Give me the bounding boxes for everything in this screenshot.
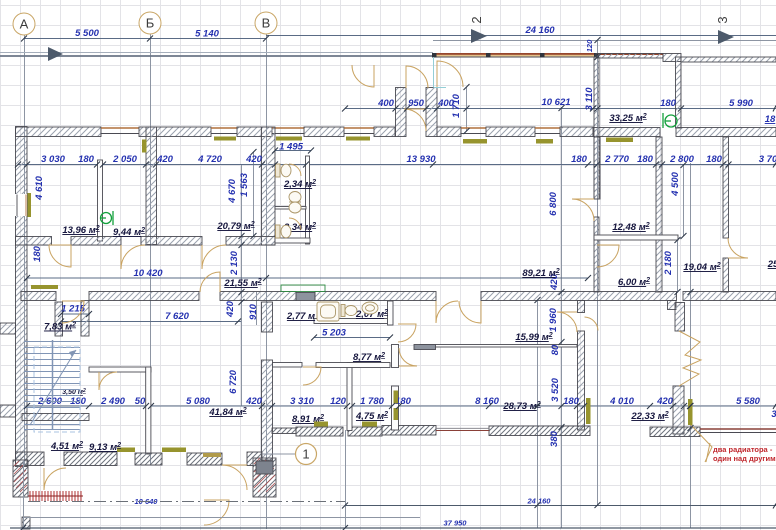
svg-text:13 930: 13 930 xyxy=(406,154,436,165)
wall x656-662 xyxy=(656,137,662,292)
svg-text:2 800: 2 800 xyxy=(669,154,694,165)
dim line 7620 y321 xyxy=(61,321,241,323)
top storey line thick xyxy=(0,55,433,57)
svg-text:10 621: 10 621 xyxy=(541,97,570,108)
svg-text:180: 180 xyxy=(660,98,677,109)
green symbol room 13,96 xyxy=(101,213,112,224)
big door bottom x222-247 xyxy=(222,465,247,490)
wall 33,25 east x675-681 xyxy=(676,57,682,128)
vert line x345 bottom xyxy=(345,430,347,528)
svg-text:4 670: 4 670 xyxy=(227,178,238,203)
dim row y406 xyxy=(27,405,776,407)
svg-text:7 620: 7 620 xyxy=(165,311,189,322)
svg-text:28,73 м2: 28,73 м2 xyxy=(502,401,540,412)
top band wall segment 1 xyxy=(16,127,102,137)
long vert dim line x561 xyxy=(561,107,563,528)
door 13,96 xyxy=(49,245,71,267)
WC east thin wall xyxy=(306,156,310,244)
В wall lower x262-272 xyxy=(262,302,273,332)
wall x391-399 y345-430 xyxy=(392,345,399,368)
axis line B(Б) xyxy=(150,34,152,465)
radiator 4,75 xyxy=(362,422,377,427)
porch pier right xyxy=(253,458,276,497)
svg-text:18: 18 xyxy=(765,114,776,125)
red ramp hatch xyxy=(28,491,83,501)
svg-text:25: 25 xyxy=(767,259,776,270)
svg-text:2 050: 2 050 xyxy=(112,154,137,165)
band wall x593-664 under room 33,25 xyxy=(593,128,660,137)
bottom wall of rooms y236-245 xyxy=(16,237,52,246)
band window x535-560 xyxy=(535,127,560,129)
stair west wall xyxy=(55,302,63,336)
main dim row y164 xyxy=(18,164,776,166)
top band wall segment 3 xyxy=(237,127,272,137)
toilet 2,07 xyxy=(341,305,345,317)
radiator under window 211-237 xyxy=(214,137,236,141)
svg-text:6,00 м2: 6,00 м2 xyxy=(618,277,650,288)
svg-text:420: 420 xyxy=(156,154,174,165)
top band wall segment 2 xyxy=(139,127,211,137)
radiator 2770 room xyxy=(606,138,633,143)
svg-text:6 720: 6 720 xyxy=(228,369,239,393)
door double y292 x436-481 xyxy=(436,301,458,323)
wall 8,91 top x272-302 xyxy=(273,363,303,368)
svg-text:120: 120 xyxy=(585,39,594,52)
svg-text:10 420: 10 420 xyxy=(133,268,163,279)
svg-text:1 495: 1 495 xyxy=(279,142,303,153)
sink WC middle xyxy=(289,192,301,203)
wall 9,13 top y367 xyxy=(89,367,151,372)
svg-text:400: 400 xyxy=(377,98,395,109)
svg-text:4,51 м2: 4,51 м2 xyxy=(50,441,83,452)
svg-text:37 950: 37 950 xyxy=(444,519,468,528)
shower 2,77 xyxy=(317,302,339,321)
window x211-237 xyxy=(211,127,237,129)
dim row y108 xyxy=(345,108,776,110)
wall 8,77 bottom y362-368 xyxy=(316,363,390,368)
svg-text:420: 420 xyxy=(656,396,674,407)
wall 420 x146-156 xyxy=(146,127,157,245)
svg-text:13,96 м2: 13,96 м2 xyxy=(62,225,99,236)
bottom wall y427 segments xyxy=(296,427,343,436)
dark lintel piece x296-315 xyxy=(296,293,315,301)
stair east wall xyxy=(81,301,89,337)
door 2,07 xyxy=(398,324,416,342)
balcony door zigzag xyxy=(679,331,701,386)
ticks 1495 xyxy=(272,148,314,154)
ticks row y108 xyxy=(342,106,776,112)
band wall x560-593 xyxy=(560,127,593,137)
svg-text:8 160: 8 160 xyxy=(475,396,499,407)
radiator 9,44 vertical xyxy=(142,140,147,153)
top wall x596-663 hatched xyxy=(596,54,663,59)
light blue vestibule lines xyxy=(433,57,435,87)
wall 8,91 / 4,75 x347-352 xyxy=(347,363,352,431)
svg-text:24 160: 24 160 xyxy=(524,25,555,36)
svg-text:5 140: 5 140 xyxy=(195,29,219,40)
svg-text:А: А xyxy=(20,17,29,32)
dim line 1215 y314 xyxy=(61,313,90,315)
stair mid line xyxy=(52,340,54,430)
ticks misc verticals xyxy=(559,105,565,430)
line to circle 1 xyxy=(262,453,297,455)
top wall x681-776 xyxy=(681,57,776,62)
svg-text:1 960: 1 960 xyxy=(548,307,559,331)
svg-text:9,13 м2: 9,13 м2 xyxy=(89,442,121,453)
svg-text:420: 420 xyxy=(245,396,263,407)
svg-text:1 215: 1 215 xyxy=(61,304,85,315)
svg-text:50: 50 xyxy=(135,396,146,407)
wall y235-240 bottom of 12,48 xyxy=(594,235,678,240)
porch pier left xyxy=(13,460,28,497)
wall 50 x146-151 xyxy=(146,367,151,454)
door 8,77 right xyxy=(399,348,417,366)
WC1 door arc xyxy=(289,164,301,176)
wall x577-584 rooms 15,99/22,33 xyxy=(578,301,585,313)
axis circle В xyxy=(255,12,277,34)
door 41,84 top x199-220 xyxy=(200,272,220,292)
door 9,13 xyxy=(99,372,117,390)
svg-text:120: 120 xyxy=(330,396,347,407)
threshold line x436-489 xyxy=(436,430,489,432)
door 8,91 top xyxy=(303,367,321,385)
axis circle Б xyxy=(139,12,161,34)
door 20,79 xyxy=(202,245,226,269)
svg-text:8,77 м2: 8,77 м2 xyxy=(353,352,385,363)
svg-text:2 490: 2 490 xyxy=(100,396,125,407)
svg-text:5 500: 5 500 xyxy=(75,28,99,39)
vert line x23 bottom xyxy=(23,460,25,528)
svg-text:4 720: 4 720 xyxy=(197,154,222,165)
radiator under window 344-374 xyxy=(346,137,370,141)
svg-text:2 770: 2 770 xyxy=(604,154,629,165)
svg-text:12,48 м2: 12,48 м2 xyxy=(612,222,649,233)
top wall corner x663-681 xyxy=(663,54,681,62)
sink 2,07 xyxy=(362,302,378,314)
wall right of 2,07 x387-393 xyxy=(388,301,394,325)
pier foot x650-700 xyxy=(650,427,700,437)
svg-text:15,99 м2: 15,99 м2 xyxy=(515,332,552,343)
vestibule wall east xyxy=(426,88,437,137)
svg-text:41,84 м2: 41,84 м2 xyxy=(208,407,246,418)
ticks 10420 xyxy=(24,275,591,281)
wall x723-728 with door gap xyxy=(723,137,729,238)
long vert dim line x690 xyxy=(690,163,692,528)
window x344-374 xyxy=(344,127,374,129)
door 89,21 from lobby xyxy=(572,199,594,221)
partition x97-103 room 13,96/9,44 xyxy=(98,160,103,241)
svg-text:2 130: 2 130 xyxy=(229,250,240,275)
svg-text:5 580: 5 580 xyxy=(736,396,760,407)
svg-text:1 710: 1 710 xyxy=(451,93,462,117)
stair treads xyxy=(24,342,80,430)
svg-text:180: 180 xyxy=(32,245,43,262)
wall left outer xyxy=(16,127,28,467)
svg-text:1 780: 1 780 xyxy=(360,396,384,407)
radiator stair block xyxy=(31,285,58,289)
svg-text:4 610: 4 610 xyxy=(34,175,45,200)
svg-text:80: 80 xyxy=(550,344,561,355)
svg-text:89,21 м2: 89,21 м2 xyxy=(522,268,559,279)
svg-text:3 310: 3 310 xyxy=(290,396,314,407)
thin wall x272-296 y428 xyxy=(272,428,296,434)
svg-text:В: В xyxy=(262,16,271,31)
wall 2,07 block top walls xyxy=(314,319,390,324)
WC2 door arc xyxy=(289,218,301,230)
svg-text:910: 910 xyxy=(248,303,259,320)
svg-text:3: 3 xyxy=(771,409,776,420)
svg-text:5 203: 5 203 xyxy=(322,328,346,339)
leader line callout xyxy=(690,424,712,462)
svg-text:Б: Б xyxy=(146,16,155,31)
dim line 1495 y150 xyxy=(275,150,311,152)
vert dim line x677 (2180) xyxy=(677,238,679,292)
svg-text:4 010: 4 010 xyxy=(609,396,634,407)
door 28,73/22,33 xyxy=(557,312,577,332)
window x101-139 xyxy=(101,127,139,129)
radiator lobby window 1 xyxy=(463,139,487,144)
svg-text:6 800: 6 800 xyxy=(548,191,559,215)
svg-text:2,77 м: 2,77 м xyxy=(286,311,315,322)
green lintel rect xyxy=(281,285,325,292)
window band ticks xyxy=(432,53,599,58)
svg-text:3 70: 3 70 xyxy=(759,154,776,165)
bottom-left band y452-466 xyxy=(16,452,45,466)
svg-text:20,79 м2: 20,79 м2 xyxy=(216,221,254,232)
section arrow 3 xyxy=(718,30,734,44)
top band wall segment 5 xyxy=(374,127,395,137)
ticks 7620 1215 xyxy=(58,311,241,325)
band piece right of vestibule door xyxy=(437,127,461,137)
dim line 5203 y337 xyxy=(314,337,390,339)
wall 33,25 west x591-598 xyxy=(594,57,599,199)
bottom dim line 24160 xyxy=(345,505,776,507)
door bottom exit 4,51 xyxy=(44,468,66,490)
wall segment x414-435 y345 xyxy=(414,345,436,350)
axis circle A xyxy=(13,13,35,35)
svg-text:33,25 м2: 33,25 м2 xyxy=(609,113,646,124)
pier x673-684 y386-434 xyxy=(673,386,684,434)
stair dashed outline xyxy=(34,347,80,432)
svg-text:420: 420 xyxy=(245,154,263,165)
vert dim line x241 xyxy=(241,165,243,406)
wall stub x675-684 y303-331 xyxy=(675,303,685,332)
svg-text:3 030: 3 030 xyxy=(41,154,65,165)
radiator room 13,96 xyxy=(28,193,32,217)
door vestibule top xyxy=(406,66,428,88)
svg-text:3: 3 xyxy=(715,16,730,23)
top storey line thin xyxy=(0,52,433,54)
svg-text:180: 180 xyxy=(637,154,654,165)
svg-text:180: 180 xyxy=(571,154,588,165)
svg-text:два радиатора -: два радиатора - xyxy=(713,445,773,454)
bottom edge pier small xyxy=(22,517,30,529)
radiator bars middle bottom xyxy=(586,398,591,424)
section arrow 2 xyxy=(471,29,487,43)
wall x591-597 lower with door gap xyxy=(594,137,600,199)
svg-text:2: 2 xyxy=(469,16,484,23)
ticks 5203 xyxy=(311,335,393,341)
door 9,44 xyxy=(121,245,145,269)
ticks bottom rows xyxy=(20,503,776,530)
vestibule wall west xyxy=(396,88,407,137)
svg-text:4,75 м2: 4,75 м2 xyxy=(355,411,388,422)
bottom wall right thin line x700-776 xyxy=(700,428,776,430)
svg-text:5 990: 5 990 xyxy=(729,98,753,109)
svg-text:950: 950 xyxy=(408,98,425,109)
svg-text:180: 180 xyxy=(706,154,723,165)
axis line V(В) xyxy=(266,34,268,529)
door 3,70 room xyxy=(728,238,748,258)
svg-text:4 500: 4 500 xyxy=(670,171,681,196)
section arrow 1 xyxy=(48,47,63,61)
corridor south wall y291-301 xyxy=(21,292,56,301)
door lobby left xyxy=(352,65,374,87)
long vert dim line x537 xyxy=(537,300,539,528)
В wall x262-275 upper xyxy=(262,127,276,245)
toilet WC1 xyxy=(276,164,281,177)
window in left wall xyxy=(15,194,27,216)
vert dim line x256 bottom xyxy=(256,292,258,325)
WC partition y207 xyxy=(275,207,306,210)
door 22,33 right leaf xyxy=(585,317,599,331)
axis line A xyxy=(24,35,26,465)
svg-text:5 080: 5 080 xyxy=(186,396,210,407)
ticks axis row xyxy=(21,36,269,42)
svg-text:2,34 м2: 2,34 м2 xyxy=(283,179,316,190)
door vestibule bottom xyxy=(404,109,426,131)
top band wall segment 4 xyxy=(304,127,344,137)
lobby door arc right of vestibule xyxy=(437,61,463,87)
svg-text:один над другим: один над другим xyxy=(713,454,776,463)
svg-text:380: 380 xyxy=(549,430,560,447)
svg-text:2 180: 2 180 xyxy=(663,250,674,275)
svg-text:1: 1 xyxy=(302,447,309,462)
door 7,83 xyxy=(62,301,84,323)
window sills bottom-left: radiators xyxy=(117,448,135,453)
band wall x486-535 xyxy=(486,127,535,137)
top dim line 24160 xyxy=(266,35,776,37)
svg-text:180: 180 xyxy=(78,154,95,165)
radiator 8,91 xyxy=(314,422,328,427)
dim line 10420 y278 xyxy=(27,277,588,279)
radiator lobby window 2 xyxy=(536,139,553,144)
svg-text:19,04 м2: 19,04 м2 xyxy=(683,262,720,273)
dim line A-B-V xyxy=(24,38,266,40)
svg-text:22,33 м2: 22,33 м2 xyxy=(630,411,668,422)
green symbol top right xyxy=(665,115,677,127)
toilet WC2 xyxy=(276,225,281,238)
long vert dim line x597 xyxy=(597,40,599,505)
svg-text:3 110: 3 110 xyxy=(584,87,595,111)
radiator under window 272-304 xyxy=(276,137,302,141)
svg-text:21,55 м2: 21,55 м2 xyxy=(223,278,261,289)
dashed line 10640 xyxy=(28,501,345,503)
svg-text:1 563: 1 563 xyxy=(239,172,250,196)
understair wall y413 xyxy=(22,414,89,421)
top window band brown line lobby xyxy=(433,53,663,55)
bottom dim line 37950 xyxy=(10,527,776,529)
band window x461-486 xyxy=(461,127,486,129)
stair diagonal arrow xyxy=(30,350,76,425)
ticks row y406 xyxy=(24,403,776,409)
wall stub x668-676 below y292 xyxy=(668,301,677,310)
svg-text:9,44 м2: 9,44 м2 xyxy=(113,227,145,238)
thin step line y345 x420-577 xyxy=(420,345,577,348)
callout frame xyxy=(706,443,710,462)
left porch stubs xyxy=(0,323,16,334)
bottom left line xyxy=(23,517,420,519)
ticks row y164 xyxy=(15,162,776,168)
svg-text:420: 420 xyxy=(225,300,236,318)
window x272-304 xyxy=(272,127,304,129)
vert dim line x683 (4500) xyxy=(683,165,685,236)
axis circle 1 bottom xyxy=(296,444,317,465)
vert dim line x466 vestibule xyxy=(466,87,468,131)
band door gap green + wall x678-776 xyxy=(676,128,776,137)
vert dim line x253 xyxy=(253,152,255,236)
svg-text:3 520: 3 520 xyxy=(550,377,561,401)
door 6,00 xyxy=(597,245,619,267)
